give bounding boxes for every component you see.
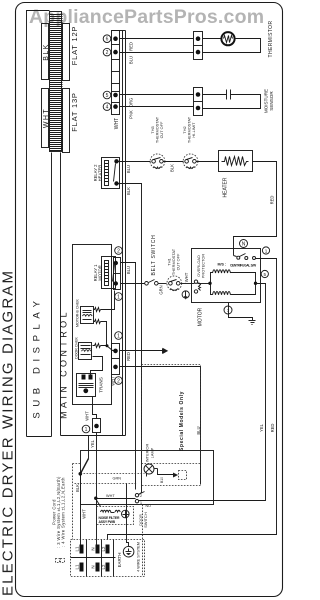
svg-text:RED: RED (270, 196, 275, 205)
connector bar FLAT 13P (63, 89, 70, 153)
svg-text:BLU: BLU (126, 266, 131, 274)
svg-text:WHT: WHT (111, 376, 116, 386)
svg-text:FLAT 13P: FLAT 13P (70, 92, 79, 131)
terminal cell divider (113, 540, 115, 577)
trans secondary dot (83, 388, 88, 393)
wire M/S to RED drop (108, 259, 277, 540)
wire chek to relay strip (101, 291, 115, 310)
svg-text:MOTOR: MOTOR (198, 307, 204, 326)
svg-text:HEATER: HEATER (98, 165, 103, 182)
svg-text:MOTOR: MOTOR (98, 265, 103, 281)
pin 5 (113, 93, 118, 98)
pin mid 2 (113, 365, 118, 370)
connector strip CN-B thermistor (194, 32, 203, 60)
connector pin box WHT (93, 419, 101, 433)
option dashed square (179, 471, 187, 480)
wire belt to TH1 (159, 283, 167, 285)
belt switch contacts (145, 280, 158, 286)
svg-text:BLK: BLK (170, 164, 175, 172)
svg-text:FLAT 12P: FLAT 12P (70, 26, 79, 65)
circled N (240, 240, 248, 248)
resistor (94, 308, 101, 312)
svg-text:HEATER: HEATER (223, 177, 229, 197)
circled 7 (224, 306, 232, 314)
wire heater to motor N (234, 162, 277, 256)
svg-text:1: 1 (117, 294, 120, 300)
svg-text:YEL: YEL (90, 439, 95, 448)
svg-text:SENSOR: SENSOR (269, 91, 274, 111)
sub display box (27, 153, 52, 437)
circled 5 (103, 91, 111, 99)
heater box (219, 151, 253, 172)
svg-text:1: 1 (85, 427, 88, 433)
svg-text:BLU: BLU (196, 426, 201, 434)
svg-text:N: N (90, 547, 95, 550)
dashed earth link wire 2 (75, 483, 137, 485)
svg-text:THERMISTOR: THERMISTOR (268, 21, 274, 58)
terminal block divider (71, 557, 116, 559)
svg-text:BLK: BLK (43, 43, 50, 60)
motor ground wire (229, 303, 253, 321)
wire WHT jog to filter (96, 499, 101, 507)
svg-text:5: 5 (106, 93, 109, 99)
circled 5 (261, 270, 268, 277)
circled 2 (115, 247, 123, 255)
wire WHT to door switch (96, 498, 136, 500)
wire winding to YEL drop (139, 284, 266, 501)
wire top-left loop (27, 11, 50, 437)
svg-text:: 4 Wire System ±L1,L2,N,Earth: : 4 Wire System ±L1,L2,N,Earth (61, 477, 66, 547)
terminal cell divider (86, 540, 88, 577)
terminal L1 row1 (80, 545, 84, 554)
wire N drop YEL (96, 433, 98, 545)
resistor (93, 344, 101, 348)
svg-text:N: N (90, 565, 95, 568)
svg-text:DOOR CHEK: DOOR CHEK (75, 337, 79, 359)
overload protector contacts (194, 280, 200, 293)
svg-text:PNK: PNK (129, 110, 134, 119)
pin (196, 106, 201, 111)
pin (196, 50, 201, 55)
svg-text:ORG: ORG (129, 98, 134, 108)
ground symbol (249, 321, 256, 325)
svg-text:5: 5 (264, 272, 267, 277)
terminal L2 row2 (106, 563, 110, 572)
svg-text:MOTOR-B CHEK: MOTOR-B CHEK (76, 298, 80, 326)
svg-text:L2: L2 (101, 546, 106, 551)
wire moisture b (120, 106, 194, 108)
pin mid 1 (113, 349, 118, 354)
label OVERLOAD PROTECTOR (196, 254, 206, 279)
terminal L1 row2 (80, 563, 84, 572)
thermostat TH1 cut off (167, 276, 182, 291)
thermistor RT1 (203, 32, 261, 52)
wire door chek to pin jog (101, 346, 116, 351)
pin 4 (113, 104, 118, 109)
svg-text:BLU: BLU (126, 165, 131, 173)
svg-text:2: 2 (117, 248, 120, 254)
wire BLU to door area (120, 367, 201, 485)
wire thermistor a (120, 38, 194, 40)
terminal cell divider (101, 540, 103, 577)
TH1 sensor bulb circle with arrow (182, 291, 189, 299)
wire thermistor b (120, 52, 194, 54)
connector strip CN-C moisture (194, 88, 203, 116)
svg-text:ASSY PWB: ASSY PWB (99, 520, 116, 524)
motor box (192, 249, 261, 303)
relay 2 heater (102, 158, 120, 189)
door chek second lead (91, 357, 103, 375)
node (106, 344, 109, 347)
trans primary pins (82, 375, 86, 380)
label INTERIOR LAMP (145, 444, 155, 463)
node BLK (79, 472, 83, 476)
wire relay1 bottom to belt switch (121, 283, 145, 285)
svg-text:RED: RED (270, 424, 275, 433)
svg-text:YEL: YEL (259, 423, 264, 432)
svg-text:WHT: WHT (43, 108, 50, 128)
wire trans out down (93, 397, 97, 419)
svg-text:B10: B10 (160, 477, 164, 483)
svg-text:TRANS: TRANS (99, 377, 104, 393)
label RELAY 2 HEATER (93, 164, 103, 182)
circled 1 (115, 293, 123, 301)
label DOOR SWITCH (138, 512, 148, 528)
power cord dashed box (73, 464, 143, 577)
connector strip mid (112, 344, 120, 375)
noise filter dashed box (97, 507, 134, 525)
svg-text:HI-LIMIT: HI-LIMIT (191, 122, 196, 138)
svg-text:NO: NO (146, 504, 152, 508)
trans box (77, 374, 96, 397)
pin (94, 424, 99, 429)
motor-b chek coil (81, 307, 94, 324)
svg-text:RED: RED (126, 352, 131, 361)
inner relay enclosure box (73, 245, 112, 405)
circled 2 (115, 377, 123, 385)
label TH3 THERMOSTAT CUT OFF (150, 116, 164, 143)
terminal block box (71, 540, 145, 577)
svg-text:BLU: BLU (129, 56, 134, 64)
svg-text:SUB DISPLAY: SUB DISPLAY (32, 295, 43, 418)
wire BLK jog (81, 436, 89, 545)
svg-text:1: 1 (265, 248, 268, 253)
svg-text:4: 4 (106, 105, 109, 111)
wire relay2 to BLK drop (119, 184, 142, 495)
svg-text:RED: RED (129, 42, 134, 51)
svg-text:L2: L2 (101, 564, 106, 569)
svg-text:2: 2 (106, 50, 109, 56)
svg-text:LAMP: LAMP (150, 447, 155, 458)
big bulkhead box (81, 451, 214, 505)
svg-text:MAIN CONTROL: MAIN CONTROL (59, 309, 69, 419)
thermostat TH2 hi-limit (183, 154, 198, 169)
motor winding main (198, 270, 256, 284)
svg-text:BLK: BLK (126, 187, 131, 195)
terminal N row1 (96, 545, 100, 554)
svg-text:WHT: WHT (106, 494, 115, 498)
svg-text:CUT OFF: CUT OFF (159, 121, 164, 138)
wire TH1 to motor box (181, 283, 195, 285)
label TH1 THERMOSTAT CUT OFF (167, 248, 181, 275)
legend dashed squares (56, 559, 60, 563)
svg-text:2: 2 (140, 494, 142, 498)
label MOISTURE SENSOR (264, 89, 275, 113)
centrifugal switch M/S (234, 254, 256, 260)
svg-text:SWITCH: SWITCH (143, 512, 148, 528)
door chek coil (79, 343, 92, 360)
motor winding aux (211, 284, 256, 295)
wire TH3-TH2 (164, 161, 184, 163)
resistor (94, 320, 101, 324)
label RELAY 1 MOTOR (93, 264, 103, 282)
svg-text:M/S :: M/S : (218, 263, 227, 267)
heater feed wire (119, 161, 151, 163)
lamp lead left (146, 473, 148, 477)
circled 1 (82, 425, 90, 433)
interior lamp (144, 464, 154, 474)
wire moisture a (120, 94, 194, 96)
pin (196, 36, 201, 41)
svg-text:GRN: GRN (113, 477, 122, 481)
svg-text:Special Models Only: Special Models Only (179, 391, 185, 451)
circled 2 (103, 48, 111, 56)
pin 6 (113, 36, 118, 41)
svg-text:L1: L1 (75, 546, 80, 551)
svg-text:MOISTURE: MOISTURE (264, 89, 269, 113)
relay 1 motor (102, 257, 116, 289)
svg-text:WHT: WHT (184, 272, 189, 282)
svg-text:WHT: WHT (82, 509, 87, 519)
svg-text:EARTH: EARTH (117, 553, 122, 568)
svg-text:AppliancePartsPros.com: AppliancePartsPros.com (29, 6, 264, 28)
svg-text:CENTRIFUGAL S/W: CENTRIFUGAL S/W (230, 263, 256, 267)
svg-text:6: 6 (106, 37, 109, 43)
circled 1 (115, 332, 123, 340)
earth terminal (123, 546, 134, 557)
wire relay1 top to door feed drop (121, 263, 136, 490)
svg-text:GRN: GRN (159, 285, 164, 294)
svg-text:PROTECTOR: PROTECTOR (201, 254, 206, 279)
filter coil (101, 510, 121, 512)
flat ribbon cable strip (50, 12, 63, 152)
pin relay1 bottom (114, 281, 118, 285)
svg-text:CUT OFF: CUT OFF (176, 253, 181, 270)
connector bar FLAT 12P (63, 24, 70, 81)
pin (196, 92, 201, 97)
wire TH2 to heater (197, 161, 219, 163)
connector bar BLK (42, 24, 49, 80)
legend power cord (52, 476, 66, 548)
node WHT on YEL drop (94, 497, 97, 500)
filter lamp symbol (122, 510, 130, 518)
moisture sensor electrodes (203, 90, 261, 109)
svg-text:2: 2 (117, 378, 120, 384)
node winding right (254, 282, 257, 285)
terminal L2 row1 (106, 545, 110, 554)
svg-text:1: 1 (117, 333, 120, 339)
connector strip CN-A (112, 31, 120, 115)
svg-text:ELECTRIC DRYER WIRING DIAGRAM: ELECTRIC DRYER WIRING DIAGRAM (0, 269, 17, 596)
svg-text:WHT: WHT (85, 411, 90, 421)
svg-text:1: 1 (140, 501, 142, 505)
main control box (61, 31, 126, 436)
pin relay1 top (114, 261, 118, 265)
relay1 connector strip (114, 258, 121, 290)
door switch (135, 492, 144, 503)
circled 4 (103, 103, 111, 111)
svg-text:BELT SWITCH: BELT SWITCH (151, 235, 157, 276)
connector bar WHT (42, 89, 49, 148)
special models dashed box (142, 365, 201, 486)
node winding left (208, 282, 211, 285)
pin 2 (113, 50, 118, 55)
label TH2 THERMOSTAT HI-LIMIT (182, 116, 196, 143)
svg-text:BLK: BLK (75, 484, 80, 492)
lamp to option link arrow (155, 469, 178, 477)
circled 6 (103, 35, 111, 43)
terminal N row2 (96, 563, 100, 572)
svg-text:WHT: WHT (114, 118, 120, 129)
arrow wire ground ref (120, 349, 168, 354)
svg-text:N: N (242, 241, 246, 247)
svg-text:L1: L1 (75, 564, 80, 569)
wire chek2 down (101, 322, 107, 346)
dashed earth link wire (81, 473, 145, 475)
svg-text:4 WIRE SYSTEM: 4 WIRE SYSTEM (137, 542, 141, 572)
circled 1 (262, 247, 269, 254)
thermostat TH3 cut off (150, 154, 165, 169)
wire GRN down to earth (127, 484, 129, 547)
